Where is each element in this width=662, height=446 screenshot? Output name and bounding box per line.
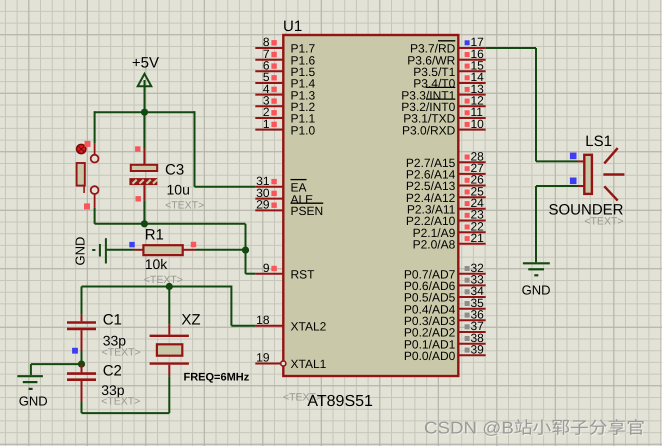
push button (top pin) [94, 143, 96, 155]
state square C3 top [135, 146, 140, 151]
push button bottom pin [94, 194, 96, 208]
state square R1 left (blue) [129, 242, 134, 247]
svg-text:10k: 10k [145, 256, 169, 272]
push button actuator (red cap) [77, 144, 86, 153]
pin 26 P2.5/A13 (right stub) [406, 173, 486, 194]
svg-text:XTAL1: XTAL1 [291, 357, 327, 371]
crystal XZ [150, 324, 189, 376]
pin 8 P1.7 (left stub) [255, 35, 315, 56]
wire junction to RST pin [246, 250, 256, 274]
pin 37 P0.2/AD2 (right stub) [404, 319, 486, 340]
svg-text:C2: C2 [103, 363, 122, 380]
svg-text:RST: RST [291, 267, 316, 281]
pin 16 P3.6/WR (right stub) [407, 47, 485, 68]
pin 13 P3.3/INT1 (right stub) [401, 82, 485, 103]
pin 12 P3.2/INT0 (right stub) [401, 94, 485, 115]
svg-text:LS1: LS1 [585, 133, 612, 150]
pin 22 P2.1/A9 (right stub) [413, 219, 486, 240]
svg-text:C3: C3 [165, 161, 184, 178]
pin 4 P1.3 (left stub) [255, 82, 315, 103]
svg-text:GND: GND [73, 237, 88, 266]
pin 35 P0.4/AD4 (right stub) [404, 296, 486, 317]
label C2 / 33p [101, 363, 140, 408]
svg-text:29: 29 [256, 198, 270, 212]
svg-text:+5V: +5V [132, 54, 159, 71]
wire rail to crystal top pin [168, 287, 170, 325]
state square C1 bottom (blue) [72, 348, 78, 354]
wire XTAL rail horizontal [82, 286, 232, 288]
svg-text:C1: C1 [103, 312, 122, 329]
wire sounder to ground [536, 186, 578, 262]
svg-text:GND: GND [522, 283, 551, 298]
svg-text:U1: U1 [283, 18, 302, 35]
pin 21 P2.0/A8 (right stub) [413, 231, 486, 252]
pin 6 P1.5 (left stub) [255, 59, 315, 80]
ground symbol (bottom left) [17, 376, 43, 389]
pin 23 P2.2/A10 (right stub) [406, 208, 486, 229]
wire rail down to C3 [143, 112, 145, 148]
value label AT89S51 [283, 392, 373, 410]
pin 11 P3.1/TXD (right stub) [403, 105, 485, 126]
label U1 [283, 18, 302, 35]
label XZ / FREQ=6MHz [181, 312, 249, 384]
svg-text:<TEXT>: <TEXT> [165, 200, 204, 212]
pin 33 P0.6/AD6 (right stub) [404, 273, 486, 294]
wire rail to EA pin [195, 111, 256, 187]
sounder LS1 [578, 148, 624, 201]
ground symbol (rotated, at R1) [92, 238, 134, 263]
op-amp U1 body (AT89S51 IC) [283, 35, 458, 376]
label R1 / 10k [144, 227, 183, 286]
pin 10 P3.0/RXD (right stub) [402, 117, 486, 138]
state square sounder bottom (blue) [570, 178, 577, 185]
svg-text:FREQ=6MHz: FREQ=6MHz [184, 372, 250, 384]
pin 7 P1.6 (left stub) [255, 47, 315, 68]
wire C2 to bottom rail [82, 401, 170, 413]
push button contacts and blade [77, 155, 99, 194]
capacitor C3 (polarized 10u) [129, 149, 157, 201]
label GND (sounder) [522, 283, 551, 298]
wire R1 to junction [196, 249, 246, 251]
svg-text:R1: R1 [145, 227, 164, 244]
watermark CSDN [424, 419, 645, 438]
pin 27 P2.6/A14 (right stub) [406, 161, 486, 182]
state square button top [85, 141, 91, 147]
label GND (rotated) [73, 237, 88, 266]
pin 3 P1.2 (left stub) [255, 94, 315, 115]
capacitor C1 33p [67, 314, 96, 350]
wire junction to ground (bottom left) [31, 364, 82, 375]
wire C1 to C2 junction [81, 351, 83, 365]
resistor R1 10k [135, 245, 196, 255]
pin 25 P2.4/A12 (right stub) [406, 184, 486, 205]
svg-text:10u: 10u [167, 181, 190, 197]
state square button bottom [84, 203, 90, 209]
wire +5V rail horizontal [95, 111, 195, 113]
pin 34 P0.5/AD5 (right stub) [404, 284, 486, 305]
pin 14 P3.4/T0 (right stub) [413, 70, 485, 91]
pin 2 P1.1 (left stub) [255, 105, 315, 126]
ground symbol (sounder) [523, 263, 550, 275]
pin 17 P3.7/RD (right stub) [410, 35, 486, 56]
power +5V symbol [132, 54, 159, 112]
pin 29 PSEN (left stub) [255, 198, 323, 219]
label GND (bottom left) [19, 394, 48, 409]
svg-text:PSEN: PSEN [291, 204, 324, 218]
pin 32 P0.7/AD7 (right stub) [404, 261, 486, 282]
svg-text:9: 9 [263, 261, 270, 275]
wire crystal bottom to rail [168, 376, 170, 413]
svg-text:P1.0: P1.0 [291, 123, 316, 137]
pin 9 RST (left stub) [255, 261, 315, 282]
svg-text:18: 18 [256, 313, 270, 327]
wire lower rail horizontal [95, 224, 246, 250]
svg-text:XZ: XZ [181, 312, 200, 329]
node junction C1/C2/GND [78, 361, 85, 368]
svg-text:P3.0/RXD: P3.0/RXD [402, 123, 456, 137]
wire rail down to C1 [81, 287, 83, 315]
label C1 / 33p [102, 312, 141, 359]
svg-text:P0.0/AD0: P0.0/AD0 [404, 349, 456, 363]
svg-text:1: 1 [263, 117, 270, 131]
label C3 / 10u [165, 161, 204, 211]
svg-text:<TEXT>: <TEXT> [144, 274, 183, 286]
svg-text:<TEXT>: <TEXT> [101, 395, 140, 407]
svg-text:<TEXT>: <TEXT> [584, 216, 623, 228]
node junction at +5V rail / C3 [141, 109, 148, 116]
node junction R1/RST [242, 247, 249, 254]
svg-text:AT89S51: AT89S51 [307, 393, 373, 410]
pin 5 P1.4 (left stub) [255, 70, 315, 91]
svg-text:21: 21 [471, 231, 485, 245]
wire rail to button (left drop) [94, 111, 96, 143]
pin 38 P0.1/AD1 (right stub) [404, 331, 486, 352]
pin 19 XTAL1 (left stub) [255, 351, 326, 372]
pin 31 EA (left stub) [255, 174, 306, 195]
capacitor C2 33p [67, 364, 96, 401]
pin 18 XTAL2 (left stub) [255, 313, 326, 334]
pin 28 P2.7/A15 (right stub) [406, 149, 486, 170]
svg-text:CSDN @B站小郓子分享官: CSDN @B站小郓子分享官 [424, 419, 645, 438]
state square R1 right (red) [191, 242, 196, 247]
svg-text:10: 10 [471, 117, 485, 131]
svg-text:39: 39 [471, 343, 485, 357]
wire C3 bottom to lower rail [143, 200, 145, 223]
svg-text:<TEXT>: <TEXT> [102, 347, 141, 359]
wire rail to XTAL2 pin [231, 286, 255, 326]
pin 15 P3.5/T1 (right stub) [413, 59, 485, 80]
svg-text:P2.0/A8: P2.0/A8 [413, 238, 456, 252]
node junction C3/button rail [141, 220, 148, 227]
state square C3 bottom [136, 196, 141, 201]
node junction crystal top [166, 283, 173, 290]
svg-text:XTAL2: XTAL2 [291, 319, 327, 333]
label LS1 / SOUNDER [549, 133, 624, 228]
pin 1 P1.0 (left stub) [255, 117, 315, 138]
pin 30 ALE (left stub) [255, 186, 313, 207]
svg-text:19: 19 [256, 351, 270, 365]
svg-text:GND: GND [19, 394, 48, 409]
state square sounder top (blue) [570, 153, 577, 160]
pin 24 P2.3/A11 (right stub) [407, 196, 486, 217]
wire button bottom to lower rail [94, 208, 96, 224]
pin 36 P0.3/AD3 (right stub) [404, 308, 486, 329]
pin 39 P0.0/AD0 (right stub) [404, 343, 486, 364]
wire pin17 to sounder [486, 48, 578, 161]
